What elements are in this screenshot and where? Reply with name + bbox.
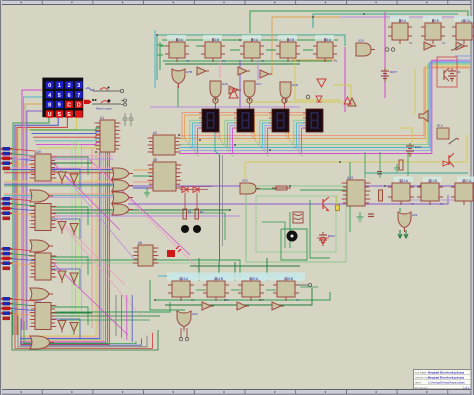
flip-flop U14:B <box>203 277 229 302</box>
wire <box>36 142 100 144</box>
wire <box>162 39 338 41</box>
wire <box>255 115 272 138</box>
svg-text:9: 9 <box>58 103 61 109</box>
diode D8 <box>317 79 326 87</box>
resistor R2 <box>195 209 204 219</box>
svg-text:U15:A: U15:A <box>249 277 259 281</box>
label highlight <box>390 16 409 22</box>
wire <box>195 126 202 151</box>
wire <box>394 199 470 201</box>
junction <box>245 185 247 187</box>
wire <box>20 152 109 344</box>
wire <box>160 46 168 70</box>
wire <box>239 60 241 108</box>
resistor R4 <box>399 160 403 170</box>
wire <box>180 189 208 191</box>
wire <box>20 152 98 337</box>
wire <box>291 118 306 142</box>
svg-text:BAT2: BAT2 <box>328 234 335 238</box>
buffer <box>197 67 209 75</box>
label highlight <box>454 16 473 22</box>
label highlight <box>423 16 442 22</box>
wire <box>131 295 133 342</box>
switch SW1 <box>86 87 124 93</box>
AND gate U16 <box>210 81 228 101</box>
buffer <box>58 321 66 333</box>
junction <box>312 16 314 18</box>
terminal T3 <box>306 95 310 99</box>
wire <box>20 152 104 341</box>
speaker LS1 <box>287 231 298 242</box>
subcircuit highlight box <box>437 57 457 87</box>
svg-text:3: 3 <box>77 83 80 89</box>
wire <box>220 115 237 138</box>
keypad row connector J1 <box>1 147 12 170</box>
junction <box>279 39 281 41</box>
wire <box>157 35 345 46</box>
svg-text:C:\Users\gs\Desktop\Keypad.pds: C:\Users\gs\Desktop\Keypad.pdsprj <box>428 382 465 385</box>
buffer <box>58 222 66 234</box>
label highlight <box>206 273 232 281</box>
wire <box>4 169 113 171</box>
wire <box>60 319 150 321</box>
power flag <box>157 42 163 48</box>
wire <box>163 60 332 62</box>
svg-text:U2: U2 <box>153 131 157 135</box>
wire <box>286 113 306 136</box>
wire <box>51 212 92 214</box>
wire <box>198 258 200 281</box>
wire <box>52 262 128 335</box>
wire <box>21 318 142 345</box>
wire <box>179 62 470 151</box>
svg-text:U8:A: U8:A <box>324 38 332 42</box>
IC U20 <box>30 150 57 181</box>
wire <box>230 49 240 51</box>
svg-text:U3:A: U3:A <box>176 38 184 42</box>
buffer <box>70 323 78 335</box>
svg-text:0: 0 <box>48 83 51 89</box>
wire <box>75 142 77 313</box>
wire <box>257 118 272 142</box>
keypad row connector J3 <box>1 247 12 270</box>
wire <box>303 49 313 51</box>
wire <box>336 195 338 212</box>
wire <box>245 101 345 103</box>
label highlight <box>423 177 442 183</box>
flip-flop U11:B <box>417 179 443 206</box>
LED D9 <box>336 205 340 211</box>
svg-text:U1: U1 <box>100 116 104 120</box>
wire <box>245 135 467 162</box>
wire <box>407 152 409 176</box>
wire <box>128 195 448 204</box>
svg-text:BATT: BATT <box>390 70 397 74</box>
diode D10 <box>443 161 449 166</box>
wire <box>55 209 230 211</box>
svg-text:1: 1 <box>58 83 61 89</box>
wire <box>55 213 225 240</box>
svg-text:U11:B: U11:B <box>428 179 437 183</box>
junction <box>199 139 201 141</box>
wire <box>4 196 114 198</box>
svg-text:BAT1: BAT1 <box>415 145 422 149</box>
wire <box>282 16 470 18</box>
wire <box>266 49 276 51</box>
svg-text:R2: R2 <box>200 210 204 214</box>
svg-text:B1: B1 <box>457 70 461 74</box>
wire <box>20 152 106 342</box>
resistor R3 <box>379 190 383 201</box>
buffer U23 <box>348 98 356 106</box>
wire <box>196 289 206 291</box>
wire <box>230 126 237 151</box>
svg-text:U9:A: U9:A <box>399 19 407 23</box>
wire <box>12 309 35 311</box>
wire <box>4 182 114 184</box>
wire <box>257 60 259 80</box>
7-segment display DISP1 <box>199 109 219 132</box>
svg-text:S: S <box>57 112 61 118</box>
wire <box>12 310 158 350</box>
wire <box>60 170 135 260</box>
junction <box>384 185 386 187</box>
wire <box>179 67 470 139</box>
svg-text:U22: U22 <box>192 312 198 316</box>
svg-text:U3:B: U3:B <box>212 38 219 42</box>
wire <box>133 175 153 177</box>
wire <box>4 172 113 174</box>
wire <box>12 163 35 165</box>
wire <box>51 169 80 189</box>
wire <box>4 185 114 187</box>
OR gate U22 <box>177 311 198 331</box>
wire <box>133 169 153 171</box>
transistor Q1 <box>323 197 329 211</box>
label highlight <box>315 35 334 41</box>
junction <box>156 34 158 36</box>
wire <box>12 249 35 251</box>
wire <box>196 45 201 47</box>
wire <box>78 142 80 332</box>
OR gate <box>30 240 53 252</box>
IC U22 <box>30 249 57 280</box>
flip-flop U12:A <box>451 179 474 206</box>
flip-flop U10:A <box>452 19 474 45</box>
wire <box>268 128 272 153</box>
wire <box>24 97 42 330</box>
label highlight <box>394 177 413 183</box>
wire <box>120 295 122 338</box>
wire <box>364 152 366 178</box>
wire <box>252 113 272 136</box>
flip-flop U4:A <box>240 38 264 63</box>
wire <box>217 136 234 157</box>
svg-text:1 of 1: 1 of 1 <box>463 387 469 389</box>
wire <box>4 183 114 185</box>
svg-text:E: E <box>67 112 71 118</box>
wire <box>187 118 202 142</box>
junction <box>239 39 241 41</box>
label highlight <box>167 35 186 41</box>
buffer <box>70 224 78 236</box>
wire <box>12 199 35 201</box>
buffer <box>229 86 241 94</box>
wire <box>177 85 179 107</box>
wire <box>172 273 296 275</box>
IC U5 <box>148 158 182 191</box>
IC U13 <box>342 176 371 206</box>
wire <box>414 69 416 114</box>
wire <box>179 68 470 136</box>
svg-text:2: 2 <box>68 83 71 89</box>
wire <box>51 207 88 225</box>
wire <box>12 304 35 306</box>
svg-text:U19: U19 <box>358 39 364 43</box>
flip-flop U3:A <box>165 38 189 63</box>
wire <box>12 204 35 206</box>
wire <box>289 212 291 248</box>
junction <box>229 209 231 211</box>
AND gate U18 <box>280 82 298 102</box>
wire <box>51 319 80 339</box>
buffer <box>58 172 66 184</box>
svg-text:RLA: RLA <box>437 124 443 128</box>
label highlight <box>276 273 302 281</box>
wire <box>262 222 285 248</box>
wire <box>292 59 336 61</box>
flip-flop U4:B <box>276 38 300 63</box>
wire <box>18 316 147 347</box>
LED D5 <box>167 246 181 257</box>
arrows A2 <box>398 230 408 238</box>
OR gate <box>112 204 133 215</box>
junction <box>419 185 421 187</box>
flip-flop U14:A <box>168 277 194 302</box>
wire <box>55 262 218 264</box>
wire <box>252 136 269 157</box>
wire <box>233 128 237 153</box>
IC U2 <box>148 131 181 155</box>
relay RLA <box>437 124 449 140</box>
wire <box>19 117 77 335</box>
7-segment display DISP3 <box>269 109 289 132</box>
svg-text:U20: U20 <box>242 179 248 183</box>
wire <box>222 155 224 246</box>
label highlight <box>241 273 267 281</box>
wire <box>400 128 412 142</box>
wire <box>12 149 35 151</box>
transistor Q3 <box>449 153 454 167</box>
junction <box>276 275 278 277</box>
wire <box>154 155 156 162</box>
wire <box>4 195 114 197</box>
svg-text:U13: U13 <box>347 176 353 180</box>
label highlight band <box>167 273 305 281</box>
wire <box>55 215 240 217</box>
label highlight <box>278 35 297 41</box>
IC U1 <box>95 116 121 152</box>
fuse F1 <box>272 186 291 190</box>
flip-flop U11:A <box>388 179 414 206</box>
wire <box>158 275 302 277</box>
wire <box>13 117 49 335</box>
svg-text:R1: R1 <box>188 210 192 214</box>
flip-flop U15:A <box>238 277 264 302</box>
flip-flop U9:B <box>421 19 445 45</box>
AND gate U17 <box>244 81 262 101</box>
buffer <box>70 174 78 186</box>
wire <box>266 289 276 291</box>
wire <box>222 118 237 142</box>
wire <box>217 113 237 136</box>
label highlight <box>457 177 474 183</box>
wire <box>51 257 88 275</box>
AND gate U19 <box>356 39 375 57</box>
wire <box>219 155 221 262</box>
junction <box>289 185 291 187</box>
wire <box>218 262 220 281</box>
wire <box>225 120 237 144</box>
wire <box>52 212 125 285</box>
wire <box>246 186 346 262</box>
flip-flop U9:A <box>388 19 412 45</box>
wire <box>333 85 351 100</box>
wire <box>133 181 153 183</box>
battery BAT2 <box>319 232 335 246</box>
wire <box>289 115 306 138</box>
svg-text:U20: U20 <box>35 150 41 154</box>
title block <box>414 370 472 390</box>
wire <box>51 312 92 314</box>
wire <box>35 139 101 141</box>
wire <box>12 263 35 265</box>
svg-text:U9:B: U9:B <box>432 19 439 23</box>
diode D4 <box>316 96 322 102</box>
wire <box>20 152 96 336</box>
wire <box>190 120 202 144</box>
wire <box>182 136 199 157</box>
wire <box>244 162 246 181</box>
wire <box>4 167 113 169</box>
svg-text:4: 4 <box>48 93 51 99</box>
IC U6 <box>133 241 159 266</box>
wire <box>349 162 351 232</box>
LED L2 <box>193 225 201 233</box>
wire <box>51 219 80 239</box>
wire <box>179 65 470 141</box>
speaker SP1 <box>419 111 428 122</box>
svg-text:U14:B: U14:B <box>214 277 223 281</box>
wire <box>180 186 212 188</box>
buffer <box>424 42 436 50</box>
svg-text:U: U <box>48 112 52 118</box>
flip-flop U15:B <box>273 277 299 302</box>
wire <box>126 295 128 340</box>
wire <box>2 158 113 160</box>
wire <box>71 140 73 335</box>
wire <box>198 128 202 153</box>
svg-text:Press to open: Press to open <box>96 107 113 111</box>
wire <box>20 152 102 340</box>
wire <box>154 30 156 88</box>
wire <box>90 160 190 255</box>
wire <box>260 120 272 144</box>
inverter bubble <box>282 98 287 109</box>
svg-text:U14:A: U14:A <box>179 277 189 281</box>
wire <box>24 321 136 343</box>
LED L1 <box>181 225 189 233</box>
sheet border ruler top <box>0 0 474 5</box>
sheet border ruler bottom <box>0 390 474 395</box>
wire <box>150 106 300 108</box>
junction <box>171 275 173 277</box>
diode D7 <box>344 97 351 104</box>
junction <box>339 161 341 163</box>
buffer <box>456 42 468 50</box>
wire <box>155 299 300 301</box>
wire <box>266 258 268 281</box>
wire <box>265 126 272 151</box>
label highlight <box>171 273 197 281</box>
wire <box>25 104 42 330</box>
svg-text:PATH:: PATH: <box>415 381 422 384</box>
svg-text:U18: U18 <box>292 83 298 87</box>
wire <box>60 222 140 315</box>
relay RL1 <box>293 212 303 223</box>
buffer <box>238 67 250 75</box>
IC U23 <box>30 299 57 330</box>
wire <box>55 315 160 317</box>
junction <box>241 275 243 277</box>
ground <box>357 212 364 221</box>
wire <box>12 154 35 156</box>
switch SW4 <box>449 138 459 144</box>
wire <box>12 254 35 256</box>
terminals below OR U22 <box>179 328 188 341</box>
wire <box>128 185 471 187</box>
wire <box>455 59 471 61</box>
svg-text:Keypad Doorlock.pdsprj: Keypad Doorlock.pdsprj <box>428 376 464 380</box>
wire <box>300 189 352 191</box>
power flag <box>157 52 163 58</box>
wire <box>156 35 158 80</box>
wire <box>399 208 401 212</box>
wire <box>38 146 101 148</box>
wire <box>256 196 336 252</box>
svg-text:U21: U21 <box>412 213 418 217</box>
terminal T2 <box>391 48 395 52</box>
junction <box>95 151 97 153</box>
wire <box>51 262 92 264</box>
wire <box>115 295 117 336</box>
7-segment display DISP2 <box>234 109 254 132</box>
wire <box>12 259 35 261</box>
AND gate U20 <box>240 179 260 195</box>
junction <box>259 299 261 301</box>
svg-text:U11:A: U11:A <box>399 179 408 183</box>
wire <box>15 117 58 335</box>
wire <box>4 170 113 172</box>
wire <box>384 12 386 98</box>
wire <box>296 123 306 148</box>
wire <box>15 313 153 349</box>
wire <box>12 159 35 161</box>
OR gate <box>30 288 53 300</box>
wire <box>192 123 202 148</box>
svg-text:7: 7 <box>77 93 80 99</box>
capacitor C1 <box>123 113 134 126</box>
